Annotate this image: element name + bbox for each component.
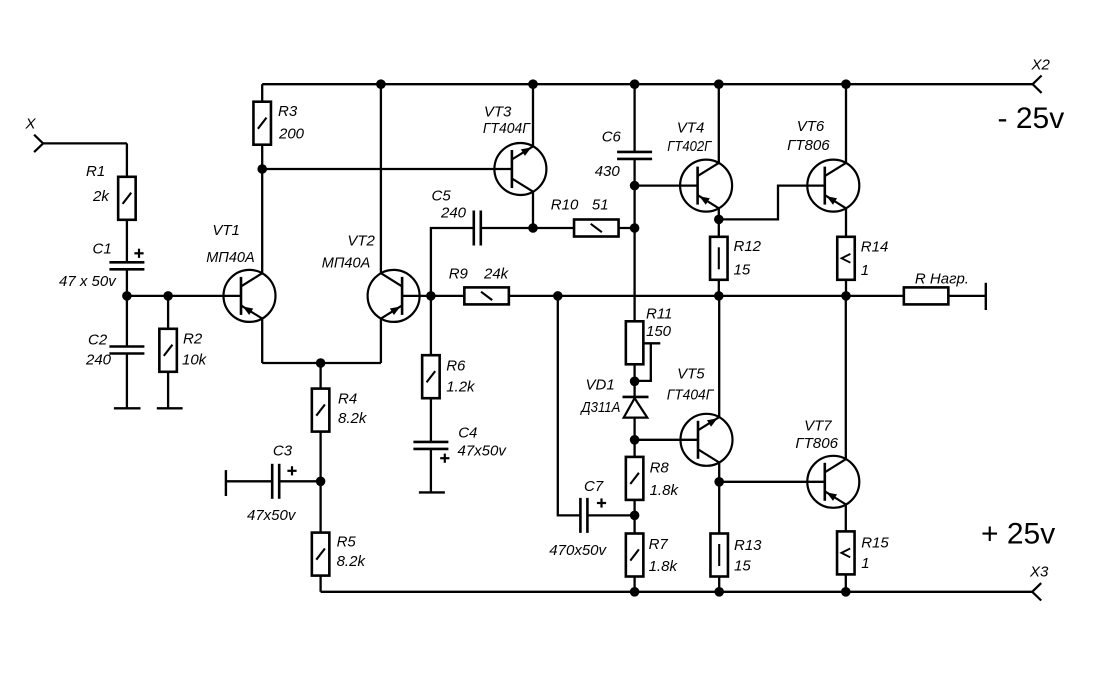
node VT5 collector	[714, 477, 724, 487]
label R4	[338, 391, 357, 408]
wire R14 to output rail	[845, 280, 847, 296]
svg-text:R13: R13	[734, 537, 762, 554]
svg-text:47x50v: 47x50v	[458, 443, 508, 460]
wire VT4 emitter	[718, 209, 720, 220]
label R12	[734, 238, 762, 255]
wire VT2 base	[402, 295, 431, 297]
label C2 value	[85, 352, 112, 369]
svg-text:X: X	[25, 116, 37, 133]
wire node to R9	[431, 295, 465, 297]
resistor R5	[312, 533, 330, 576]
wire C1 to node	[126, 269, 128, 296]
resistor R13	[710, 534, 728, 577]
svg-text:1.2k: 1.2k	[446, 379, 476, 396]
label C5	[432, 188, 452, 205]
svg-text:R Нагр.: R Нагр.	[915, 271, 969, 288]
label C7	[584, 478, 604, 495]
wire VT6 base step	[719, 186, 825, 220]
connector X3	[1032, 583, 1041, 600]
svg-text:150: 150	[646, 323, 672, 340]
node VT4 emitter	[714, 215, 724, 225]
svg-text:47x50v: 47x50v	[247, 507, 297, 524]
resistor R4	[312, 389, 330, 432]
capacitor C3	[272, 464, 279, 499]
wire C7 right	[588, 514, 635, 516]
label VT3	[484, 103, 512, 120]
resistor R2	[159, 329, 177, 372]
wire R10 node to R11	[633, 228, 635, 322]
node input bias	[122, 291, 132, 301]
wire R3 to node	[261, 145, 263, 169]
wire VD1 to VT5 base node	[633, 418, 635, 440]
svg-text:МП40А: МП40А	[206, 249, 255, 266]
wire R4 to C3 node	[319, 432, 321, 482]
svg-text:ГТ402Г: ГТ402Г	[667, 138, 713, 155]
wire VT6 emitter	[845, 209, 847, 238]
transistor VT5	[681, 414, 733, 466]
wire rail to R3	[261, 84, 263, 102]
wire VT5 collector	[718, 462, 720, 481]
svg-text:VT3: VT3	[484, 103, 512, 120]
label R2	[183, 331, 203, 348]
svg-text:МП40А: МП40А	[322, 255, 371, 272]
svg-text:15: 15	[734, 262, 751, 279]
wire R13 to bottom rail	[718, 577, 720, 592]
capacitor C4	[413, 442, 448, 449]
connector X	[34, 135, 43, 152]
label R8	[650, 460, 670, 477]
label C3	[273, 442, 293, 459]
label C2	[88, 332, 108, 349]
node VT5 base	[630, 435, 640, 445]
label R7 value	[649, 558, 679, 575]
label VT3 type	[483, 120, 532, 137]
label C3 value	[247, 507, 297, 524]
resistor R3	[253, 102, 271, 145]
wire R1 to C1	[126, 220, 128, 263]
label VD1	[586, 377, 615, 394]
wire +25v bottom rail	[321, 591, 1033, 593]
svg-text:24k: 24k	[483, 266, 510, 283]
svg-text:X3: X3	[1029, 564, 1049, 581]
wire C7 node to R7	[633, 515, 635, 533]
wire C3 node to R5	[319, 481, 321, 533]
svg-text:R8: R8	[650, 460, 670, 477]
resistor R12	[710, 237, 728, 280]
transistor VT4	[680, 160, 732, 212]
svg-text:VT1: VT1	[212, 222, 240, 239]
capacitor C7	[580, 498, 587, 533]
label R10 value	[592, 197, 609, 214]
wire C3 right	[279, 480, 320, 482]
label R9 value	[483, 266, 510, 283]
svg-text:C4: C4	[458, 424, 477, 441]
svg-text:51: 51	[592, 197, 609, 214]
wire R2 to terminal	[167, 372, 169, 409]
wire R8 to C7 node	[633, 500, 635, 516]
label X2	[1031, 57, 1051, 74]
node R15 bottom	[841, 587, 851, 597]
label VT1	[212, 222, 240, 239]
label R10	[551, 197, 579, 214]
label R load	[915, 271, 969, 288]
label R15	[861, 535, 889, 552]
label R3	[278, 103, 298, 120]
node VT3 bottom	[528, 223, 538, 233]
wire R5 to bottom rail	[319, 576, 321, 592]
svg-text:R6: R6	[446, 358, 466, 375]
label R4 value	[338, 410, 368, 427]
polarity + C1	[134, 249, 143, 258]
label C6	[602, 129, 622, 146]
wire VT3 collector	[532, 192, 534, 228]
resistor R14	[837, 237, 855, 280]
wire R11 tap	[635, 343, 661, 381]
wire rail to C6	[633, 84, 635, 152]
node output feedback	[553, 291, 563, 301]
label R8 value	[650, 482, 680, 499]
wire load to terminal	[948, 295, 985, 297]
node VT4 base	[630, 181, 640, 191]
svg-text:240: 240	[85, 352, 112, 369]
label VT4	[677, 119, 705, 136]
label +25v	[981, 518, 1055, 551]
wire node to R13	[718, 482, 720, 534]
label R1 value	[92, 188, 110, 205]
label R14 value	[861, 262, 869, 279]
wire join to R4	[319, 363, 321, 389]
node R12 bottom	[714, 291, 724, 301]
svg-text:VT6: VT6	[797, 118, 825, 135]
node VT6 rail	[841, 79, 851, 89]
svg-text:VT5: VT5	[677, 365, 705, 382]
svg-text:430: 430	[595, 163, 621, 180]
wire R15 to bottom rail	[845, 574, 847, 591]
wire node to C2	[126, 296, 128, 347]
label R5	[337, 534, 357, 551]
resistor R11	[626, 321, 644, 364]
svg-text:VD1: VD1	[586, 377, 615, 394]
svg-text:+ 25v: + 25v	[981, 518, 1055, 551]
node VT3 rail	[528, 79, 538, 89]
transistor VT1	[224, 270, 276, 322]
wire R11 to VD1 node	[633, 364, 635, 381]
wire VT5 emitter	[718, 296, 720, 417]
wire R7 to bottom rail	[633, 577, 635, 592]
svg-text:ГТ806: ГТ806	[795, 435, 838, 452]
wire VT2 node to C5	[431, 228, 474, 296]
svg-text:R14: R14	[861, 239, 889, 256]
svg-text:ГТ404Г: ГТ404Г	[667, 387, 715, 404]
svg-text:15: 15	[734, 558, 751, 575]
svg-text:VT7: VT7	[804, 418, 832, 435]
node VT2 base	[426, 291, 436, 301]
node VT4 rail	[714, 79, 724, 89]
wire R10 left	[533, 227, 574, 229]
svg-text:R9: R9	[449, 266, 469, 283]
label C4 value	[458, 443, 508, 460]
wire base row VT1	[127, 295, 242, 297]
label R3 value	[278, 126, 305, 143]
terminal load	[985, 283, 987, 310]
label R7	[649, 536, 669, 553]
transistor VT7	[807, 456, 859, 508]
resistor R1	[118, 177, 135, 220]
svg-text:47 x 50v: 47 x 50v	[59, 273, 117, 290]
terminal C2	[114, 407, 141, 409]
capacitor C5	[474, 211, 481, 246]
label C6 value	[595, 163, 621, 180]
wire C2 to terminal	[126, 354, 128, 409]
label R1	[86, 163, 105, 180]
label R13	[734, 537, 762, 554]
terminal R2	[157, 407, 183, 409]
svg-text:R10: R10	[551, 197, 579, 214]
svg-text:1: 1	[861, 262, 869, 279]
svg-text:X2: X2	[1031, 57, 1051, 74]
svg-text:1.8k: 1.8k	[650, 482, 680, 499]
label VT5 type	[667, 387, 715, 404]
svg-text:ГТ404Г: ГТ404Г	[483, 120, 532, 137]
label R13 value	[734, 558, 751, 575]
label VT4 type	[667, 138, 713, 155]
label C5 value	[440, 205, 467, 222]
wire VT4 base	[635, 184, 698, 186]
resistor R7	[626, 534, 644, 577]
label VT2	[347, 233, 375, 250]
svg-text:R7: R7	[649, 536, 669, 553]
resistor R10	[574, 220, 619, 237]
label R2 value	[182, 352, 208, 369]
svg-text:8.2k: 8.2k	[337, 553, 367, 570]
node R2 top	[163, 291, 173, 301]
polarity + C3	[287, 466, 296, 475]
capacitor C2	[109, 347, 144, 354]
node R3 bottom	[257, 164, 267, 174]
label VT1 type	[206, 249, 255, 266]
svg-text:1: 1	[861, 555, 869, 572]
wire C7 branch	[558, 296, 581, 516]
label VT6	[797, 118, 825, 135]
svg-text:R2: R2	[183, 331, 203, 348]
diode VD1	[623, 397, 649, 418]
wire C3 left	[226, 480, 273, 482]
connector X2	[1033, 76, 1042, 93]
label VT6 type	[787, 137, 830, 154]
transistor VT3	[494, 143, 546, 195]
label X3	[1029, 564, 1049, 581]
svg-text:470x50v: 470x50v	[549, 542, 607, 559]
svg-text:R12: R12	[734, 238, 762, 255]
svg-text:1.8k: 1.8k	[649, 558, 679, 575]
node R7 bottom	[630, 587, 640, 597]
label R11 value	[646, 323, 672, 340]
terminal C3	[225, 470, 227, 496]
wire VT1 emitter	[261, 318, 263, 363]
terminal C4	[419, 491, 445, 493]
wire node to R2	[167, 296, 169, 329]
wire VT3 emitter	[532, 84, 534, 146]
label R6 value	[446, 379, 476, 396]
label VD1 type	[580, 399, 621, 416]
node R14 bottom	[841, 291, 851, 301]
svg-text:2k: 2k	[92, 188, 110, 205]
wire X input	[43, 143, 127, 177]
transistor VT2	[368, 270, 420, 322]
node emitter join	[316, 358, 326, 368]
svg-text:C7: C7	[584, 478, 604, 495]
wire VT7 base	[719, 481, 825, 483]
transistor VT6	[807, 160, 859, 212]
resistor R8	[626, 457, 644, 500]
wire -25v top rail	[262, 83, 1032, 85]
svg-text:C1: C1	[93, 241, 112, 258]
svg-text:R4: R4	[338, 391, 357, 408]
polarity + C7	[597, 498, 606, 507]
label VT7 type	[795, 435, 838, 452]
svg-text:240: 240	[440, 205, 467, 222]
wire C4 to terminal	[430, 449, 432, 493]
wire VT4 to R12	[718, 219, 720, 237]
label VT7	[804, 418, 832, 435]
node C6 rail	[630, 79, 640, 89]
wire node to VD1	[633, 381, 635, 397]
wire VT1 collector	[261, 169, 263, 274]
wire VT4 collector	[718, 84, 720, 163]
svg-text:R5: R5	[337, 534, 357, 551]
wire VT2 emitter	[380, 318, 382, 363]
label R9	[449, 266, 469, 283]
node R13 bottom	[714, 587, 724, 597]
svg-text:R1: R1	[86, 163, 105, 180]
wire C6 to VT4 base node	[633, 159, 635, 186]
label R15 value	[861, 555, 869, 572]
resistor R9	[464, 287, 509, 304]
svg-text:- 25v: - 25v	[998, 102, 1065, 135]
label C4	[458, 424, 477, 441]
svg-text:C3: C3	[273, 442, 293, 459]
wire R10 right	[619, 227, 635, 229]
label R14	[861, 239, 889, 256]
wire node to R8	[633, 440, 635, 457]
capacitor C1	[109, 262, 144, 269]
svg-text:10k: 10k	[182, 352, 208, 369]
svg-text:R15: R15	[861, 535, 889, 552]
node VT2 collector rail	[376, 79, 386, 89]
wire R12 to output rail	[718, 280, 720, 296]
wire VT6 collector	[845, 84, 847, 163]
label R12 value	[734, 262, 751, 279]
label VT5	[677, 365, 705, 382]
svg-text:VT4: VT4	[677, 119, 705, 136]
wire R6 to C4	[430, 398, 432, 442]
label R6	[446, 358, 466, 375]
label C7 value	[549, 542, 607, 559]
wire R9 to output rail	[509, 295, 904, 297]
node C7	[630, 511, 640, 521]
wire emitter join	[262, 362, 381, 364]
svg-text:8.2k: 8.2k	[338, 410, 368, 427]
svg-text:ГТ806: ГТ806	[787, 137, 830, 154]
label VT2 type	[322, 255, 371, 272]
resistor R load	[904, 287, 949, 304]
wire VT7 collector	[845, 296, 847, 459]
svg-text:200: 200	[278, 126, 305, 143]
svg-text:Д311А: Д311А	[580, 399, 621, 416]
wire VT4 node to R10	[633, 186, 635, 228]
svg-text:C6: C6	[602, 129, 622, 146]
wire VT7 emitter	[845, 505, 847, 532]
label R5 value	[337, 553, 367, 570]
svg-text:VT2: VT2	[347, 233, 375, 250]
resistor R6	[422, 355, 440, 398]
svg-text:R11: R11	[646, 306, 672, 323]
node VD1 top	[630, 377, 640, 387]
svg-text:C2: C2	[88, 332, 108, 349]
svg-text:R3: R3	[278, 103, 298, 120]
node C3	[316, 477, 326, 487]
label R11	[646, 306, 672, 323]
wire R3 node to VT3 base	[262, 168, 512, 170]
svg-text:C5: C5	[432, 188, 452, 205]
wire VT5 base	[635, 439, 698, 441]
label X	[25, 116, 37, 133]
resistor R15	[837, 531, 855, 574]
wire C5 to VT3 node	[481, 227, 533, 229]
label C1 value	[59, 273, 117, 290]
label -25v	[998, 102, 1065, 135]
wire node to R6	[430, 296, 432, 356]
label C1	[93, 241, 112, 258]
polarity + C4	[440, 454, 449, 463]
capacitor C6	[617, 152, 652, 159]
node R10 right	[630, 223, 640, 233]
wire VT2 collector	[380, 84, 382, 273]
